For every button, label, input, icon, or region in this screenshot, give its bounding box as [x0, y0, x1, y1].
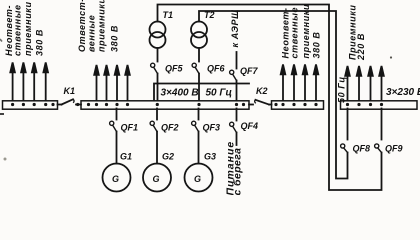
transformer T1 [150, 22, 166, 38]
svg-text:ственные: ственные [13, 4, 23, 56]
busbar B4 (3x230V) [341, 101, 418, 109]
edge mark left [0, 113, 4, 115]
svg-text:G: G [153, 174, 160, 184]
wire QF6 to busbar [198, 74, 200, 101]
wire T1 secondary to QF9: top outer loop [158, 5, 382, 191]
text block: essential receivers 380V [77, 0, 119, 52]
svg-text:QF9: QF9 [385, 144, 403, 154]
svg-text:QF6: QF6 [207, 64, 225, 74]
busbar B1 (non-essential 380V left) [3, 101, 58, 109]
svg-text:QF7: QF7 [240, 66, 258, 76]
svg-text:50 Гц: 50 Гц [337, 76, 347, 103]
svg-text:к АЭРЩ: к АЭРЩ [230, 9, 240, 47]
wire T2 secondary to QF8: inner loop [199, 11, 348, 179]
svg-text:220 В: 220 В [356, 33, 366, 61]
contactor K1 [58, 104, 62, 106]
svg-text:380 В: 380 В [34, 29, 44, 56]
svg-text:3×400 В: 3×400 В [161, 88, 199, 99]
breaker QF4 [230, 122, 237, 132]
wire QF3 to G3 [198, 132, 200, 164]
svg-text:K2: K2 [256, 86, 268, 96]
generator G3 [185, 164, 213, 192]
wire T1 to QF5 [157, 48, 159, 62]
wire QF2 to G2 [156, 132, 158, 164]
svg-text:приемники: приемники [97, 0, 107, 52]
svg-text:QF1: QF1 [121, 123, 139, 133]
svg-text:приемники: приемники [301, 4, 311, 59]
text block: non-essential receivers 380V (right) [281, 4, 322, 59]
junction dots [11, 103, 383, 106]
svg-text:T1: T1 [163, 10, 174, 20]
svg-text:ственные: ственные [290, 7, 300, 59]
svg-text:QF2: QF2 [161, 123, 179, 133]
text block: non-essential receivers 380V (left) [4, 1, 44, 56]
wire QF4 to shore supply [236, 133, 238, 146]
svg-text:3×230 В: 3×230 В [386, 87, 420, 98]
svg-text:G: G [112, 174, 119, 184]
label box on main busbar [154, 84, 249, 101]
svg-text:380 В: 380 В [311, 31, 321, 58]
breaker QF3 [192, 121, 199, 131]
breaker QF2 [150, 121, 157, 131]
svg-text:QF5: QF5 [165, 64, 183, 74]
breaker QF1 [110, 121, 117, 131]
breaker QF5 [151, 63, 158, 73]
generator G2 [143, 164, 171, 192]
svg-text:венные: венные [87, 15, 97, 52]
svg-text:K1: K1 [64, 86, 76, 96]
svg-text:QF3: QF3 [203, 123, 221, 133]
svg-text:T2: T2 [204, 10, 215, 20]
svg-text:G1: G1 [120, 152, 132, 162]
wire QF7 to busbar [236, 81, 238, 101]
breaker QF7 [230, 70, 237, 80]
svg-text:приемники: приемники [23, 1, 33, 56]
busbar B3 (non-essential 380V right) [272, 101, 324, 109]
svg-text:G: G [194, 174, 201, 184]
wire busbar to QF1 [116, 109, 118, 120]
wire T2 to QF6 [198, 48, 200, 62]
breaker QF8 [347, 109, 349, 140]
wire busbar to QF2 [156, 109, 158, 120]
net label: shore supply [225, 141, 244, 196]
wire busbar to QF3 [198, 109, 200, 120]
wire QF1 to G1 [116, 132, 118, 164]
svg-text:G2: G2 [162, 152, 174, 162]
transformer T2 [191, 22, 207, 38]
consumer arrows group D (220V receivers) [345, 66, 384, 101]
contactor K2 [249, 104, 253, 106]
edge mark left lower [4, 158, 7, 161]
breaker QF6 [192, 63, 199, 73]
svg-text:QF4: QF4 [241, 121, 259, 131]
wire to emergency board (k AERShch) [236, 52, 238, 69]
busbar B2 (main 3x400V) [81, 101, 249, 109]
svg-text:QF8: QF8 [353, 144, 371, 154]
consumer arrows group C (non-essential 380V right) [281, 65, 319, 102]
svg-text:380 В: 380 В [109, 25, 119, 52]
generator G1 [103, 164, 131, 192]
svg-text:G3: G3 [204, 152, 216, 162]
text block: receivers 220V [348, 4, 367, 61]
svg-text:50 Гц: 50 Гц [206, 88, 233, 99]
consumer arrows group B (essential 380V) [94, 65, 130, 101]
speck [390, 56, 392, 58]
svg-text:с берега: с берега [232, 148, 244, 195]
consumer arrows group A (non-essential 380V left) [10, 63, 48, 102]
wire QF5 to busbar [157, 74, 159, 101]
breaker QF9 [381, 109, 383, 140]
wire busbar to QF4 [236, 109, 238, 121]
svg-text:Ответст-: Ответст- [77, 0, 87, 52]
